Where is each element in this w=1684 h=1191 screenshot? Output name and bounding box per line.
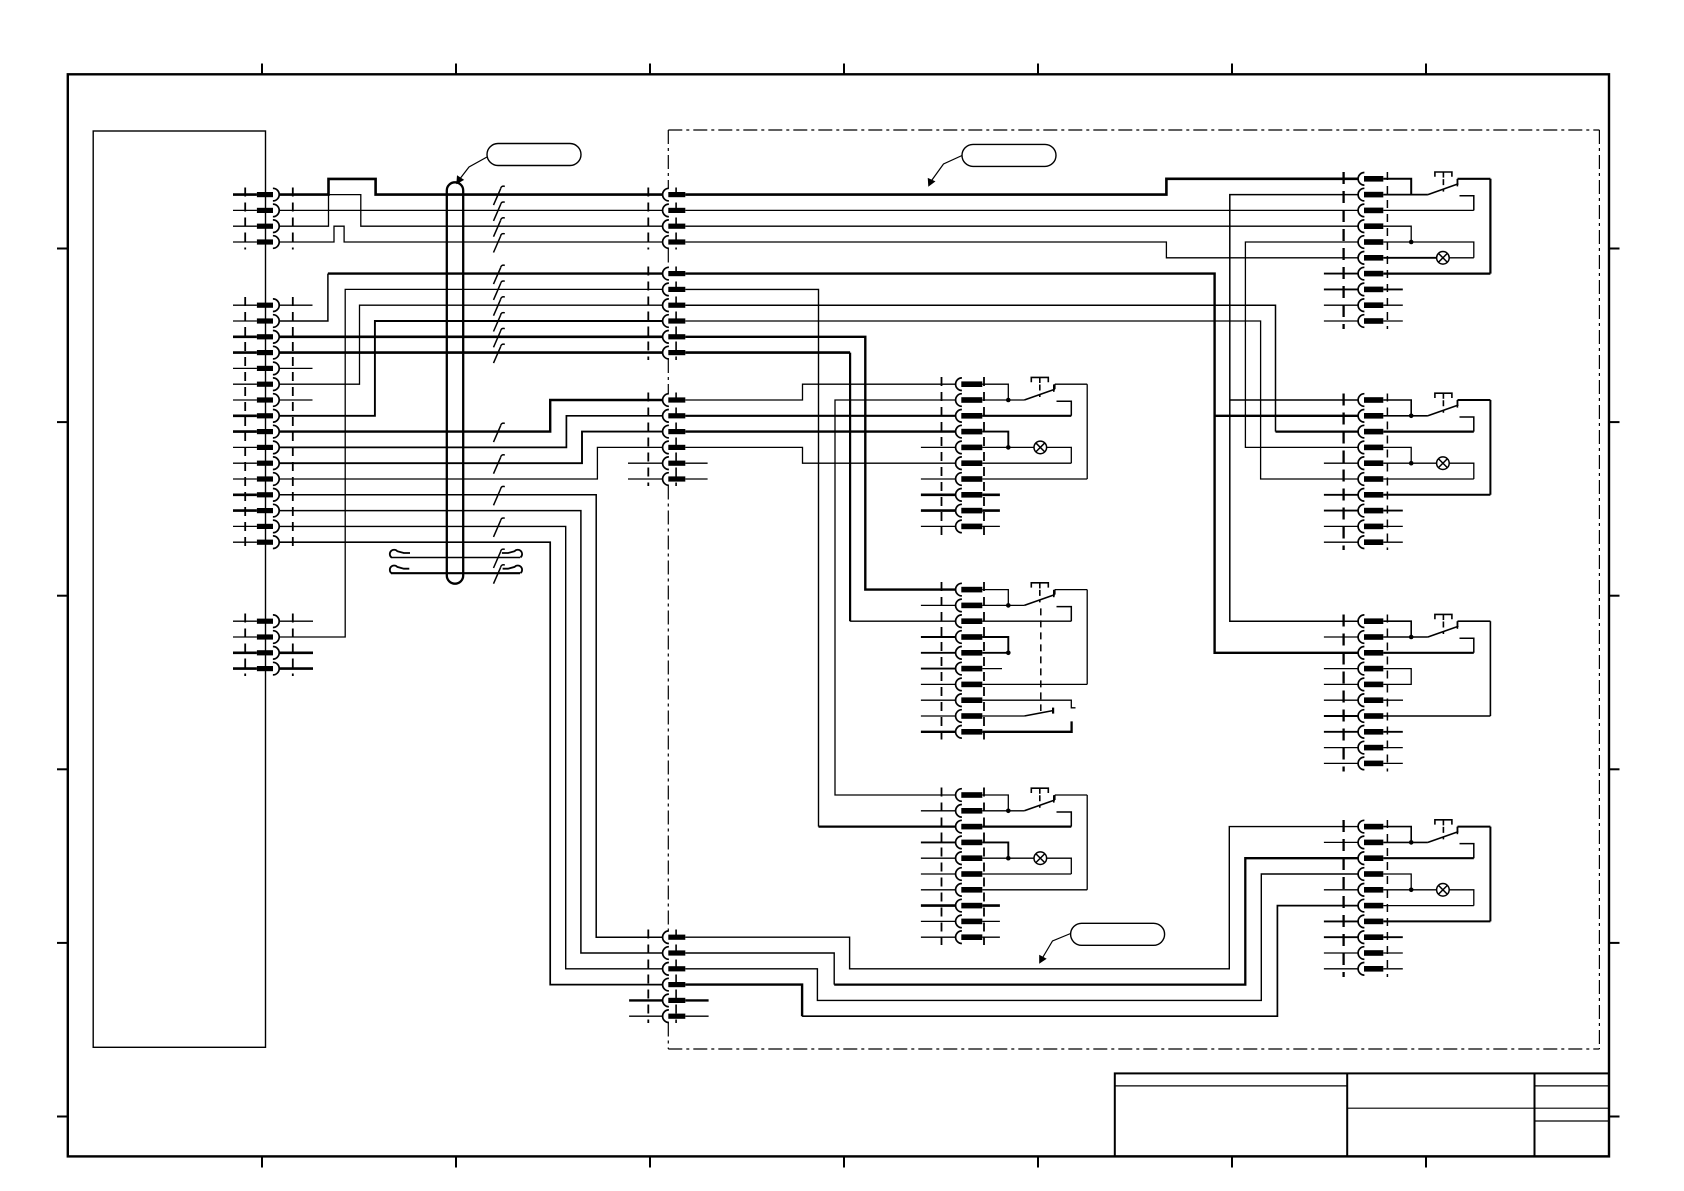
connector X5 pin 8 [956,489,962,502]
wire B9 (thick) to X3.1 riser [279,400,662,432]
wire-number slash [494,205,501,221]
unit R3 left stubs [1324,636,1358,638]
M1 stub pin 8 [921,493,955,496]
connector X5 pin 2 [956,394,962,407]
unit R2 jumper pin4-pin5 [1383,447,1411,463]
wire stubs at left connector J3 [233,620,257,622]
unit R2 right stubs [1383,510,1403,512]
connector X4 pin 1 [663,931,669,944]
switch S2 output link [1054,384,1056,389]
wire-number slash [494,426,501,442]
unit R4 left stubs [1324,841,1358,843]
connector X9 pin 6 [1358,473,1364,486]
unit R3 switch [1428,626,1459,637]
switch S3a contact to pin3 [1057,607,1072,622]
switch S4 (M3) [1024,800,1055,811]
wire X4.1 to X11.1 via bottom run [685,827,1358,969]
unit R2 pin6 return [1383,478,1474,480]
connector J2 pin 16 [257,540,273,545]
M3 left stubs [921,810,955,812]
R1 left stub pin7 [1324,273,1358,275]
connector X7 pin 2 [956,805,962,818]
wire B5 stub [279,367,312,369]
connector X6 pin 8 [956,694,962,707]
connector J3 pin 3 [257,650,273,655]
connector X2 pin 3 [663,299,669,312]
connector X7 pin 10 [956,931,962,944]
wire A3 J1.3 to X1.3 with jog [279,195,662,227]
connector X5 pin 3 [956,410,962,423]
wire A4 J1.4 to X1.4 with notch [279,226,662,242]
connector X9 pin 10 [1358,536,1364,549]
unit R4 jumper pin4-pin5 [1383,874,1411,890]
R1 lamp feed [1383,257,1436,259]
unit R4 jumper pin1-pin2 [1383,827,1411,843]
connector X9 pin 1 [1358,394,1364,407]
harness boundary box (dash-dot) [668,129,1599,131]
connector X10 pin 5 [1358,678,1364,691]
connector X6 pin 10 [956,726,962,739]
title block lines right [1535,1085,1610,1087]
connector X5 pin 10 [956,520,962,533]
connector X6 pin 6 [956,662,962,675]
connector X2 pin 1 [663,267,669,280]
connector X6 pin 3 [956,615,962,628]
switch S2 (M1) [1024,389,1055,400]
unit R3 wire pin2 [1383,636,1428,638]
wire stubs at left connector J2 [233,304,257,306]
unit R4 right stubs [1383,936,1403,938]
connector X7 pin 8 [956,899,962,912]
wire B2 to X2.1 riser [279,274,328,321]
connector J2 pin 7 [257,397,273,402]
unit R2 loop top [1458,399,1491,401]
M2 wire pin9 to switch [982,715,1024,717]
M3 stub pin 9 [921,920,955,922]
unit R2 switch output link [1457,400,1459,405]
M2 loop right [1086,590,1088,685]
title block header line left [1115,1085,1347,1087]
connector X5 pin 1 [956,378,962,391]
M2 jumper pin4-pin5 (thick) [982,637,1008,653]
lamp DS3 (R1) [1437,251,1450,264]
connector X2 pin 5 [663,331,669,344]
wire B11 to X3.3 riser [279,432,662,464]
wire X3.1 to X5.1 with jog up [685,384,955,400]
bus riser X8.5 to X9.4 [1245,242,1357,447]
loom clamp hook lower-left [390,565,409,573]
unit R4 lamp [1437,884,1450,897]
connector J2 pin 1 [257,303,273,308]
callout balloon 3 leader [1042,934,1071,960]
connector X2 pin 6 [663,346,669,359]
switch S3b (M2) blade [1024,711,1053,716]
M3 loop right [1086,795,1088,890]
unit R2 contact to pin3 [1460,417,1474,432]
wire-number slash [494,489,501,505]
connector X11 pin 5 [1358,884,1364,897]
wire X1.3 to X8.4 [685,225,1358,227]
connector J2 pin 9 [257,429,273,434]
unit R3 jumper pin4-pin5 [1383,669,1411,685]
unit R3 contact to pin3 [1460,638,1474,653]
unit R2 loop right [1489,400,1491,495]
wire-number slash [494,189,501,205]
switch S4 contact to pin3 [1057,812,1072,827]
wire M1 pin3 (thick) [982,415,1071,417]
unit R4 switch [1428,832,1459,843]
connector X9 pin 3 [1358,425,1364,438]
connector X1 pin 2 [663,204,669,217]
wire-number slash [494,236,501,252]
title block divider 1 [1346,1073,1348,1156]
connector X8 pin 4 [1358,220,1364,233]
wire B13 (thick) drop to X4.1 [279,495,662,937]
R1 jumper pin4-pin5 [1383,226,1411,242]
connector J1 pin 3 [257,224,273,229]
wire C1 stub [279,620,313,622]
wire-number slash [494,567,501,583]
wire B15 drop to X4.3 [279,526,662,968]
callout balloon 1 [487,144,581,166]
connector X4 pin 5 [663,994,669,1007]
connector J2 pin 8 [257,413,273,418]
unit R4 loop right [1489,827,1491,922]
wire B16 drop to X4.4 [279,542,662,984]
connector J2 pin 14 [257,508,273,513]
switch unit M1 wire pin2 [982,399,1024,401]
connector X7 pin 6 [956,868,962,881]
wire C4 stub (thick) [279,667,313,670]
wire-number slash [494,552,501,568]
bus riser to X8.2 / X9.1 / X10.1 [1230,195,1358,622]
connector X8 pin 7 [1358,267,1364,280]
wire-number slash [494,315,501,331]
connector J2 pin 4 [257,350,273,355]
connector X11 pin 9 [1358,947,1364,960]
wire X3.6 stubs [628,478,662,480]
connector X3 pin 6 [663,473,669,486]
wire-number slash [494,521,501,537]
unit R3 switch output link [1457,621,1459,626]
R1 wire pin5 to jog [1383,242,1474,258]
wire X2.5 (thick) bus down to X6.1 [685,337,955,590]
unit R2 left stubs [1324,415,1358,417]
connector X4 pin 4 [663,978,669,991]
unit R3 loop bottom pin7 [1383,715,1490,717]
wire M3 pin3 (thick) [982,825,1071,827]
M2 wire pin10 to lower contact (thick) [982,721,1071,731]
loom clamp wire upper [391,557,520,559]
switch S2 contact to pin3 [1057,401,1072,416]
connector X6 pin 4 [956,631,962,644]
M2 wire pin2 [982,604,1024,606]
connector X11 pin 4 [1358,868,1364,881]
connector X11 pin 6 [1358,899,1364,912]
wire C2 riser to X2.2 [279,289,662,637]
cable loom (vertical harness) [446,191,448,576]
connector J2 pin 12 [257,476,273,481]
connector X7 pin 1 [956,789,962,802]
connector X6 pin 1 [956,583,962,596]
connector X9 pin 4 [1358,441,1364,454]
wire-number slash [494,347,501,363]
callout balloon 2 leader [931,156,963,183]
unit R4 lamp feed [1383,889,1436,891]
unit R4 switch output link [1457,827,1459,832]
unit R4 wire pin2 [1383,841,1428,843]
M3 wire pin2 [982,810,1024,812]
M2 left stubs [921,604,955,606]
wire X2.1 (thick) bus down to X9.2 and X10.3 [685,274,1358,653]
wire B8 (thick) to X2.4 riser [279,321,662,416]
M1 loop right [1086,384,1088,479]
border zone tick marks (bottom) [261,1156,263,1167]
left connector tie line (dashed, outer) [292,188,294,250]
M3 stub pin 10 [921,936,955,938]
switch unit M3 jumper pin1-pin2 [982,795,1008,811]
unit R4 loop top [1458,826,1491,828]
M2 pin5 wire [982,652,1008,654]
wire X4.3 to X11.4 via bottom run [685,874,1358,1000]
connector X11 pin 8 [1358,931,1364,944]
connector J2 pin 3 [257,334,273,339]
lamp DS2 (M3) [1034,852,1047,865]
wire X3.3 to X5.4 (thick) [685,430,955,432]
right connector tie lines (dashed) [1342,172,1344,329]
connector X3 pin 4 [663,441,669,454]
wire stubs at left connector J1 [233,193,257,196]
connector X2 pin 2 [663,283,669,296]
unit R3 pin6 stub [1383,699,1403,701]
M3 pin6 return wire [982,873,1071,875]
loom clamp wire lower (thick) [391,572,520,574]
title block line middle [1347,1107,1534,1109]
R1 stubs pins 8-10 [1324,288,1358,290]
M3 loop bottom pin7 [982,889,1087,891]
connector X10 pin 8 [1358,726,1364,739]
unit R2 wire pin3 [1383,431,1474,433]
wire B7 stub [279,399,312,401]
wire-number slash [494,457,501,473]
switch S3a (M2) [1024,595,1055,606]
connector X5 pin 4 [956,425,962,438]
S5 contact to pin3 [1460,196,1474,211]
mid connector tie lines (dashed) [941,377,943,535]
connector X7 pin 9 [956,915,962,928]
wire B14 (thick) drop to X4.2 [279,511,662,953]
M2 loop top [1055,589,1087,591]
title block outer [1115,1073,1609,1156]
connector X4 pin 3 [663,963,669,976]
connector X1 pin 3 [663,220,669,233]
wire X3.4 to X5.6 with jog down [685,447,955,463]
wire X4.2 to X11.3 via bottom run (thick) [685,953,834,985]
switch unit M2 jumper pin1-pin2 [982,590,1008,606]
wire X4.4 (thick) to X11.6 via bottom run [685,985,802,1017]
unit R4 pin6 return [1383,905,1474,907]
connector X4 pin 2 [663,947,669,960]
M2 gang link (dashed) [1040,608,1042,711]
wire B12 to X3.4 riser [279,447,662,479]
unit R3 right stubs [1383,731,1403,733]
connector X6 pin 9 [956,710,962,723]
unit R4 loop bottom pin7 [1383,920,1490,922]
wire-number slash [494,268,501,284]
M3 lamp feed [982,857,1034,859]
connector J3 pin 4 [257,666,273,671]
unit R3 loop top [1458,620,1491,622]
connector J2 pin 2 [257,318,273,323]
connector X10 pin 9 [1358,741,1364,754]
wire X4.6 stubs [629,1015,662,1017]
connector X2 pin 4 [663,315,669,328]
connector X7 pin 5 [956,852,962,865]
connector X8 pin 1 [1358,173,1364,186]
connector X10 pin 1 [1358,615,1364,628]
wire-number slash [494,331,501,347]
border zone tick marks (right) [1609,248,1620,250]
connector X9 pin 5 [1358,457,1364,470]
R1 wire pin2 [1383,194,1428,196]
M1 loop bottom pin7 [982,478,1087,480]
wire-number slash [494,220,501,236]
M1 stub pin 9 [921,509,955,512]
connector X11 pin 3 [1358,852,1364,865]
loom clamp hook upper-left [390,550,410,558]
title block divider 2 [1534,1073,1536,1156]
wire B10 to X3.2 riser [279,416,662,448]
M1 jumper pin4-pin5 [982,432,1008,448]
wire B3 (thick) to X2.5 [279,335,662,338]
loom clamp hook upper-right [502,550,522,558]
unit R4 wire pin3 [1383,857,1474,859]
unit R2 lamp return [1449,463,1474,479]
switch S3a output link [1054,590,1056,595]
connector X7 pin 3 [956,820,962,833]
connector X10 pin 3 [1358,647,1364,660]
wire M2 pin3 [982,620,1071,622]
border zone tick marks (left) [57,248,68,250]
connector X8 pin 6 [1358,252,1364,265]
connector X3 pin 1 [663,394,669,407]
connector X6 pin 2 [956,599,962,612]
bus riser X5.2 to X7.1 [835,400,955,795]
connector X10 pin 6 [1358,694,1364,707]
connector X10 pin 2 [1358,631,1364,644]
M1 lamp feed [982,446,1034,448]
wire X2.3 bus down to X9.3 [685,305,1275,431]
wire-number slash [494,299,501,315]
center connector tie line (dashed, right) [675,188,677,250]
M1 pin7 left stub [921,478,955,480]
connector J2 pin 15 [257,524,273,529]
unit R2 switch [1428,405,1459,416]
unit R3 wire pin3 [1383,652,1474,654]
unit R4 lamp return [1449,890,1474,906]
wire X1.1 to X8.1 (thick) with jog up [685,179,1358,195]
wire B4 (thick) to X2.6 [279,351,662,354]
connector J2 pin 5 [257,366,273,371]
unit R2 jumper pin1-pin2 [1383,400,1411,416]
connector X8 pin 2 [1358,188,1364,201]
unit R2 lamp feed [1383,462,1436,464]
switch unit M1 jumper pin1-pin2 [982,384,1008,400]
unit R1 jumper pin1-pin2 (thick) [1383,179,1411,195]
wire B6 to X2.3 riser [279,305,662,384]
M3 lamp return [1047,858,1072,874]
switch S4 output link [1054,795,1056,800]
connector J2 pin 13 [257,492,273,497]
callout balloon 3 [1071,923,1165,945]
M2 wire pin8 to upper contact [982,700,1075,708]
connector X5 pin 9 [956,504,962,517]
S5 output link [1457,179,1459,184]
M2 loop bottom pin7 [982,683,1087,685]
M2 pin10 left stub (thick) [921,731,955,733]
connector X1 pin 1 [663,188,669,201]
connector X5 pin 7 [956,473,962,486]
connector J2 pin 10 [257,445,273,450]
border zone tick marks (top) [261,64,263,75]
unit R3 loop right [1489,621,1491,716]
unit R2 loop bottom pin7 [1383,494,1490,496]
connector X1 pin 4 [663,236,669,249]
switch S5 (R1) [1428,184,1459,195]
connector X8 pin 8 [1358,283,1364,296]
connector X8 pin 3 [1358,204,1364,217]
connector X9 pin 9 [1358,520,1364,533]
connector X6 pin 7 [956,678,962,691]
connector X11 pin 2 [1358,836,1364,849]
connector X8 pin 10 [1358,315,1364,328]
M1 pin5 left stub [921,446,955,448]
connector J2 pin 6 [257,382,273,387]
left device box [93,131,265,1047]
R1 lamp return [1449,257,1474,259]
connector X8 pin 9 [1358,299,1364,312]
connector X10 pin 4 [1358,662,1364,675]
unit R3 jumper pin1-pin2 [1383,621,1411,637]
connector X11 pin 1 [1358,820,1364,833]
connector X5 pin 6 [956,457,962,470]
unit R4 contact to pin3 [1460,844,1474,859]
wire X1.4 to X8.6 with jog down [685,242,1358,258]
connector J1 pin 1 [257,192,273,197]
left connector tie line (dashed, inner) [244,188,246,250]
M1 loop top [1055,383,1087,385]
M3 jumper pin4-pin5 [982,842,1008,858]
connector X9 pin 8 [1358,504,1364,517]
M3 stub pin 8 [921,904,955,907]
R1 loop right (thick) [1489,179,1491,274]
R1 loop bottom pin7 (thick) [1383,273,1490,275]
wire X2.6 (thick) bus down to X6.3 [685,351,850,354]
M2 pin6 stub right [982,668,1002,670]
connector X3 pin 3 [663,425,669,438]
connector X3 pin 5 [663,457,669,470]
connector X10 pin 10 [1358,757,1364,770]
R1 wire pin3 [1383,209,1474,211]
wire X1.2 to X8.3 [685,209,1358,211]
connector X5 pin 5 [956,441,962,454]
connector X9 pin 7 [1358,489,1364,502]
connector X8 pin 5 [1358,236,1364,249]
wire A1 (thick) left J1.1 to X1.1 with hop [279,179,662,195]
wire X2.4 bus down to X9.6 [685,321,1358,479]
connector X3 pin 2 [663,410,669,423]
connector X7 pin 7 [956,884,962,897]
